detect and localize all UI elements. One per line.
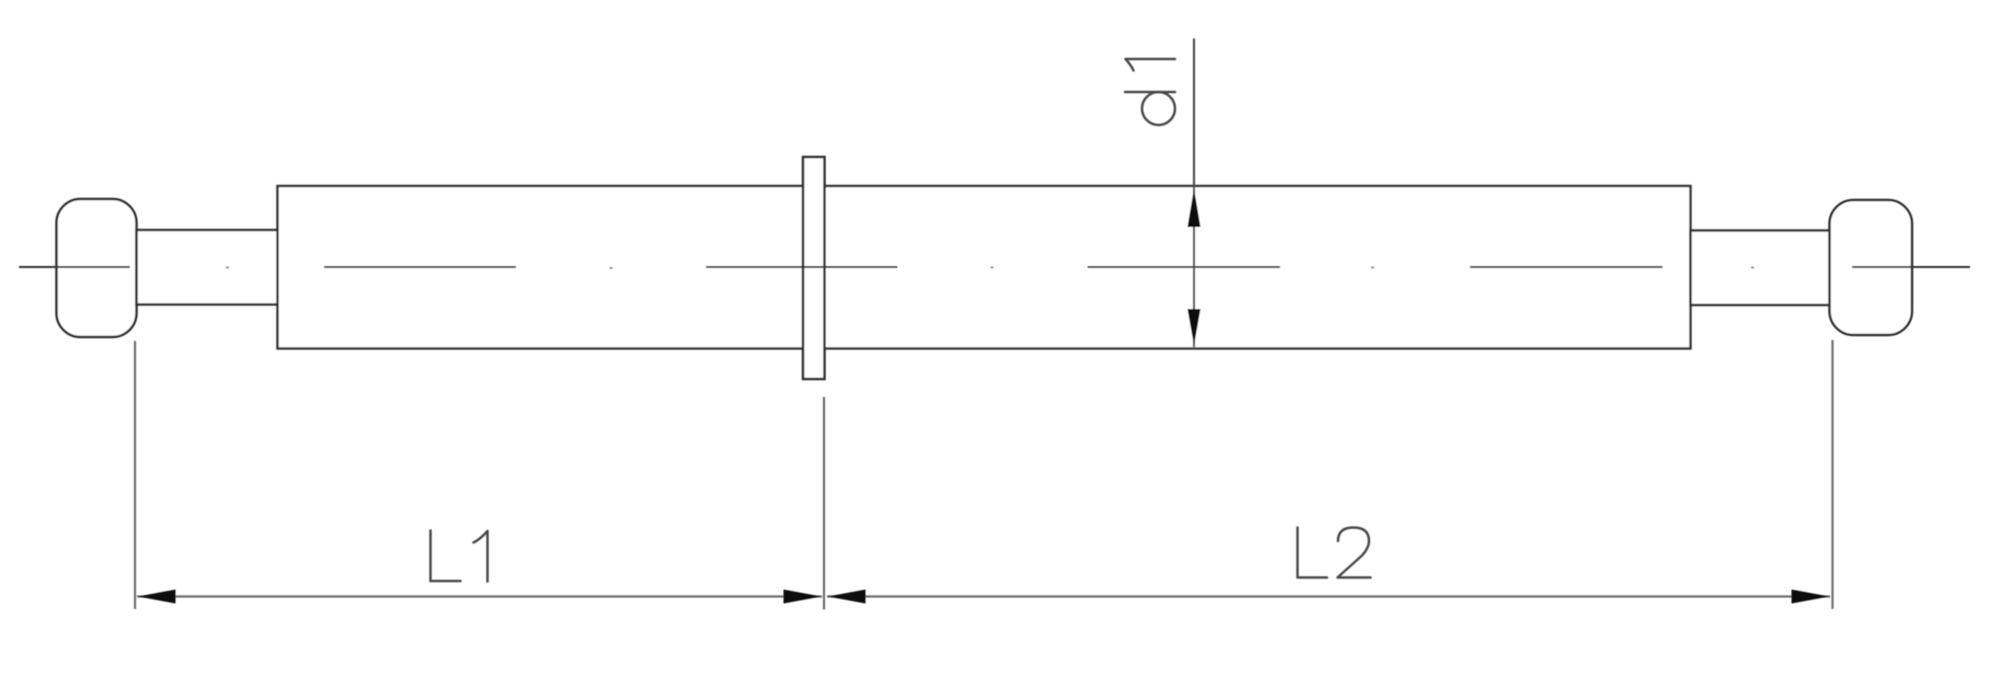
d1 arrow up	[1188, 189, 1201, 228]
L1 arrow right	[784, 590, 822, 604]
centerline dash 2	[324, 266, 516, 268]
left end fitting (rounded block)	[57, 199, 137, 337]
centerline dot 5	[1751, 267, 1754, 269]
centerline dash 5	[1470, 266, 1663, 268]
centerline dash 3	[706, 266, 898, 268]
L2 label	[1298, 528, 1371, 578]
L2 right extension line	[1831, 340, 1833, 609]
centerline dot 4	[1371, 267, 1374, 269]
centerline dash 4	[1088, 266, 1281, 268]
centerline dot 3	[991, 267, 994, 269]
centerline dash 6	[1852, 266, 1970, 268]
L2 arrow left	[828, 590, 866, 604]
middle extension line (at flange)	[823, 397, 825, 610]
centerline dot 1	[226, 267, 229, 269]
d1 label (rotated)	[1125, 59, 1175, 125]
d1 dimension line (vertical)	[1193, 39, 1195, 348]
d1 arrow down	[1188, 309, 1201, 346]
L1 label	[431, 531, 488, 582]
flange disc (white-filled, covers tube)	[803, 157, 825, 379]
right end fitting (rounded block)	[1830, 200, 1913, 335]
centerline dot 2	[610, 267, 613, 269]
L2 arrow right	[1792, 590, 1830, 604]
L1 arrow left	[138, 590, 176, 604]
left rod (stub shaft)	[137, 230, 279, 305]
main tube body	[278, 186, 1691, 349]
L1 left extension line	[134, 341, 136, 609]
L2 dimension line	[827, 595, 1830, 597]
centerline dash 1	[19, 266, 130, 268]
right rod (stub shaft)	[1691, 231, 1831, 306]
L1 dimension line	[137, 595, 822, 597]
